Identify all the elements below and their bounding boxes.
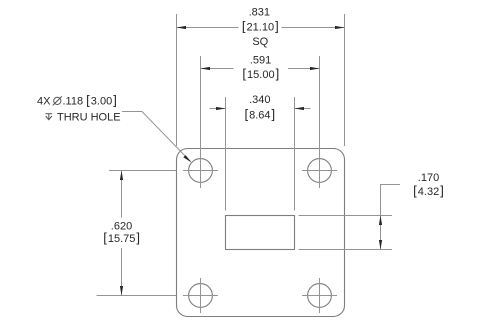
svg-text:[4.32]: [4.32] (413, 183, 444, 198)
dimension .620 dimension line (121, 171, 123, 296)
dimension .170 dimension line with jog (381, 185, 401, 250)
dimension .831 extension lines (177, 14, 345, 146)
svg-text:SQ: SQ (252, 36, 268, 48)
dimension .831 arrowheads (177, 26, 345, 29)
svg-text:.170: .170 (418, 172, 439, 184)
diameter symbol (53, 96, 62, 105)
centerline hole top-left (183, 153, 218, 188)
dimension .831 text (242, 6, 279, 48)
dimension .340 text (244, 94, 275, 121)
svg-text:.620: .620 (111, 220, 132, 232)
svg-text:.340: .340 (249, 94, 270, 106)
hole bottom-right (308, 284, 332, 308)
dimension .620 text (103, 220, 140, 245)
dimension .591 dimension line (201, 68, 320, 70)
hole callout text line 2: THRU HOLE (57, 111, 121, 123)
dimension .620 arrowheads (120, 171, 123, 296)
centerline hole bottom-right (302, 278, 337, 313)
svg-text:THRU HOLE: THRU HOLE (57, 111, 121, 123)
hole callout leader (122, 112, 191, 162)
dimension .340 extension lines (226, 97, 295, 211)
waveguide aperture slot (226, 216, 295, 250)
hole bottom-left (189, 284, 213, 308)
dimension .340 arrowheads (216, 107, 304, 110)
svg-text:.831: .831 (249, 6, 270, 18)
dimension .591 arrowheads (201, 67, 320, 70)
dimension .340 arrow tails (210, 108, 311, 110)
hole top-right (308, 159, 332, 183)
dimension .591 text (242, 54, 279, 81)
depth symbol (45, 114, 52, 120)
dimension .170 arrowheads (379, 216, 382, 250)
dimension .620 extension lines (97, 171, 177, 296)
svg-text:.118 [3.00]: .118 [3.00] (63, 92, 117, 107)
svg-text:4X: 4X (37, 95, 51, 107)
dimension .170 text (413, 172, 444, 198)
svg-text:[21.10]: [21.10] (242, 19, 279, 34)
svg-text:[8.64]: [8.64] (244, 106, 275, 121)
hole top-left (189, 159, 213, 183)
centerline hole top-right (302, 153, 337, 188)
svg-text:[15.75]: [15.75] (103, 230, 140, 245)
centerline hole bottom-left (183, 278, 218, 313)
hole callout text line 1: 4X dia .118 [3.00] (37, 92, 117, 107)
hole callout leader arrowhead (183, 155, 191, 162)
dimension .170 extension lines (299, 216, 393, 250)
dimension .591 extension lines (201, 56, 320, 153)
svg-text:[15.00]: [15.00] (242, 66, 279, 81)
dimension .831 dimension line (177, 27, 345, 29)
flange plate outline (177, 149, 345, 317)
svg-text:.591: .591 (250, 54, 271, 66)
